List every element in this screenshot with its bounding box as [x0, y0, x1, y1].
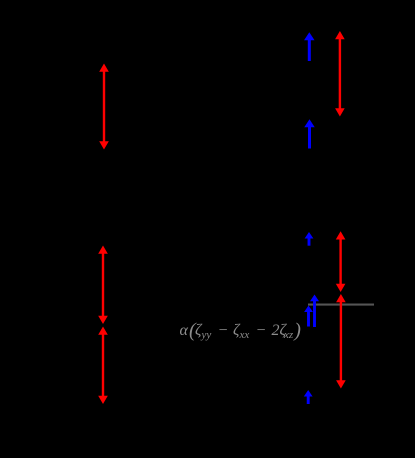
- svg-text:yy: yy: [201, 329, 212, 341]
- blue up arrow B3 (small, right middle): [305, 232, 314, 246]
- svg-text:−: −: [218, 322, 229, 339]
- blue up arrow BA (tall, at gray line): [310, 295, 319, 328]
- red double arrow R3 (left bottom): [98, 327, 108, 405]
- red double arrow RR3 (right bottom): [336, 294, 346, 389]
- svg-text:−: −: [256, 322, 267, 339]
- label alpha(zeta_yy - zeta_xx - 2 zeta_xz): [180, 319, 302, 341]
- blue up arrow B4 (small, right bottom): [304, 390, 313, 404]
- blue up arrow BB (short, at gray line): [304, 306, 313, 327]
- svg-text:xz: xz: [283, 329, 294, 341]
- gray shifted level line: [308, 304, 374, 306]
- red double arrow R2 (left middle): [98, 246, 108, 325]
- svg-text:α: α: [180, 322, 189, 339]
- svg-text:): ): [293, 319, 301, 341]
- blue up arrow B2 (right second): [304, 119, 315, 148]
- red double arrow RR2 (right middle): [336, 231, 346, 292]
- red double arrow RR1 (right top): [335, 31, 345, 117]
- svg-text:xx: xx: [239, 329, 250, 341]
- red double arrow R1 (left top): [99, 64, 109, 150]
- blue up arrow B1 (right top): [304, 32, 315, 61]
